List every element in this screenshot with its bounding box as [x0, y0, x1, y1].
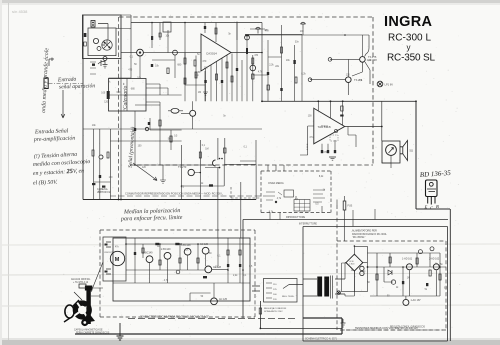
svg-text:1-AC 187: 1-AC 187 [411, 299, 422, 302]
IF block inner lines [109, 79, 147, 112]
resistor comb r3 [216, 74, 218, 80]
resistor R44 [429, 270, 431, 276]
bridge rectifier D1-D4 [346, 254, 363, 271]
psu dashed enclosure [337, 205, 446, 330]
resistor R35 [239, 250, 241, 255]
wire ground bus 2 [260, 301, 342, 328]
tuner box inner [88, 28, 116, 56]
resistor R25 [92, 150, 94, 156]
svg-text:E: E [424, 205, 428, 210]
ground tonearm [117, 323, 124, 340]
node tuner bottom [103, 57, 107, 61]
wire if column a [152, 23, 168, 53]
wire U2 output [345, 101, 382, 141]
capacitor comb c3 [236, 68, 238, 71]
phono dashed enclosure [100, 230, 255, 317]
wire speaker return [416, 208, 450, 210]
transistor Q2 driver [250, 65, 256, 71]
handwriting arrow down [61, 90, 65, 118]
dashed band-switch line vertical [118, 17, 120, 199]
main chassis left wire [82, 15, 84, 200]
wire tuner top [98, 24, 108, 40]
capacitor C26 [102, 186, 105, 188]
psu rail wires [368, 253, 447, 299]
capacitor C22 [99, 175, 101, 178]
wire volume bus [83, 129, 262, 200]
main chassis bottom wire [83, 199, 256, 201]
resistor R17 [267, 85, 269, 90]
feedback network caps [322, 140, 335, 150]
ferrite antenna [44, 78, 48, 89]
svg-text:1M: 1M [407, 278, 410, 280]
faint fold line 1 [2, 244, 500, 245]
junction dots rail [118, 22, 441, 271]
transistor package TO-126 body [426, 180, 438, 197]
svg-text:M: M [115, 257, 120, 263]
transistor Q10 [205, 266, 212, 273]
wire tuner agc [146, 84, 160, 95]
motor terminals [106, 242, 111, 274]
comb under opamp wires [185, 22, 242, 102]
left scan edge [0, 0, 2, 345]
cartridge arm black bar [86, 287, 90, 324]
switch contacts [266, 190, 325, 202]
tuner box outer [83, 15, 122, 59]
switch table 2 [294, 200, 310, 212]
capacitor C9 [293, 60, 295, 64]
svg-text:CA3014: CA3014 [206, 52, 217, 56]
wire amp to psu links [337, 200, 375, 220]
speaker LS1 coil circle [386, 145, 397, 156]
svg-text:“CARACTERISTICAS PARA RC-350 S: “CARACTERISTICAS PARA RC-350 SL” SOLO 33… [140, 314, 209, 318]
transistor Q15 if [139, 51, 141, 53]
node detector [245, 35, 250, 40]
capacitor C23 [148, 122, 150, 125]
resistor R16 [252, 74, 254, 79]
wire top rail [131, 22, 262, 24]
motor caps [105, 244, 108, 246]
capacitor C34 [239, 264, 241, 267]
transistor Q14 [403, 299, 409, 305]
record changer top wire [243, 219, 448, 221]
svg-text:AGUJAS CRISTAL: AGUJAS CRISTAL [71, 278, 91, 281]
capacitor C15 [340, 115, 343, 117]
handwriting tick tuner [98, 60, 105, 66]
package legs [428, 197, 435, 205]
node phono out [176, 270, 180, 274]
dashed power rail line mid [130, 164, 373, 166]
resistor comb r2 [195, 72, 197, 78]
handwriting hook mark [49, 58, 54, 67]
stylus ellipse [65, 305, 74, 318]
zener D5 [388, 270, 392, 275]
ground psu [341, 319, 346, 327]
transistor Q11 [211, 298, 218, 305]
resistor R42 [389, 257, 391, 263]
wire speaker top feed [348, 35, 362, 77]
svg-text:s/n 4538: s/n 4538 [12, 9, 28, 14]
wire U2 pins top [318, 101, 342, 125]
svg-text:RC-350 SL: RC-350 SL [387, 53, 435, 64]
vertical wire x131 lower [109, 53, 132, 78]
antenna symbol top b [301, 22, 306, 28]
wire q16 [168, 101, 193, 129]
transistor Q1 mixer [137, 49, 144, 56]
resistor R41 [376, 274, 378, 280]
resistor R43 [416, 258, 418, 264]
svg-text:REG. TENS.: REG. TENS. [282, 296, 295, 298]
dashed U2 compartment [307, 135, 338, 150]
voltage selector rows [266, 283, 272, 298]
left margin rule line [8, 3, 10, 340]
capacitor C4 [159, 33, 161, 37]
wire bridge loop [342, 263, 368, 292]
wire U2 left input [300, 126, 314, 155]
switch table 2 grid [294, 200, 310, 212]
capacitor C5 [246, 35, 249, 37]
transistor Q6 [146, 256, 153, 263]
resistor R45 [439, 274, 441, 280]
node psu c [391, 280, 395, 284]
wire output pair [310, 59, 370, 95]
node bus2 [260, 328, 262, 330]
wire antenna dash-dot [49, 83, 84, 85]
wire cap drops [205, 138, 225, 168]
transistor Q9 [202, 247, 209, 254]
capacitor C8 [267, 72, 269, 75]
wire tonearm bus [75, 318, 342, 334]
cartridge body black [73, 300, 92, 319]
svg-text:3-BC148: 3-BC148 [181, 244, 191, 247]
small marks column g1 [90, 62, 96, 74]
legend tensiones dashes [340, 329, 443, 331]
wire rail drop [130, 23, 132, 54]
node feedback [334, 129, 337, 132]
faint fold line 3 [2, 305, 500, 306]
node junction A [275, 201, 277, 203]
node mains gnd [337, 291, 341, 295]
tiny value labels texture [92, 30, 448, 298]
wire tuner right [120, 59, 122, 200]
wire switch drops [268, 165, 322, 220]
capacitor C25 [92, 183, 95, 185]
capacitor C3 [151, 36, 153, 40]
resistor R20 [341, 106, 343, 111]
resistor R13 [246, 48, 248, 54]
capacitor C30 [134, 252, 136, 255]
resistor R33 [197, 258, 199, 263]
svg-text:INTERRUTTORE: INTERRUTTORE [299, 224, 317, 226]
svg-text:FERIA CARRETE GIRADISCOS: FERIA CARRETE GIRADISCOS [76, 332, 110, 335]
antenna symbol top a [256, 27, 261, 33]
resistor R2 [92, 64, 95, 66]
wire right column [261, 23, 263, 102]
switch block dashed box [261, 171, 331, 213]
svg-text:1-AD 161: 1-AD 161 [402, 258, 413, 261]
svg-text:C 800: C 800 [349, 264, 355, 266]
resistor R9 [167, 68, 169, 74]
cartridge white wedges [74, 302, 91, 319]
cartridge link triangle [83, 312, 95, 323]
transistor Q12 AD161 [406, 264, 412, 270]
svg-text:TS 273: TS 273 [178, 165, 187, 169]
switch table 1 [284, 190, 294, 197]
svg-text:ONDA MEDIA: ONDA MEDIA [268, 182, 284, 185]
bridge top wire [354, 246, 367, 291]
svg-text:5Ω: 5Ω [410, 149, 413, 153]
resistor R22 [199, 152, 201, 158]
speaker LS1 box [382, 141, 400, 163]
svg-text:1-BC149: 1-BC149 [143, 252, 153, 255]
capacitor C35 [203, 276, 207, 278]
svg-text:señal aparación: señal aparación [59, 83, 96, 90]
svg-text:REGLETA CONEX. GIRADISCOS: REGLETA CONEX. GIRADISCOS [390, 326, 425, 329]
svg-text:CAPSULA MAGNETICA DE: CAPSULA MAGNETICA DE [74, 329, 103, 332]
switch contact S1 [145, 127, 148, 130]
transistor Q16 [190, 110, 196, 116]
coil L1 [91, 21, 95, 28]
node psu b [430, 247, 434, 251]
wire tuner to rail [116, 15, 131, 29]
dashed link to legend [231, 187, 261, 198]
cartridge inner white [78, 306, 87, 315]
package hole [429, 182, 433, 186]
capacitor C43 [426, 283, 428, 286]
resistor R40 dropper [343, 201, 346, 210]
voltage selector box [264, 279, 298, 303]
svg-text:1M: 1M [198, 92, 201, 94]
capacitor C17 [327, 150, 329, 153]
top scan edge band [0, 0, 500, 3]
svg-text:SCHEMA ELETTRICO N. 3571: SCHEMA ELETTRICO N. 3571 [305, 338, 338, 341]
svg-text:INGRA: INGRA [384, 14, 433, 30]
svg-text:2-BC149: 2-BC149 [161, 248, 171, 251]
mid mesh wires [135, 95, 214, 165]
transistor Q7 [164, 252, 171, 259]
transistor Q13 AD162 [433, 264, 439, 270]
resistor R7 [184, 58, 186, 64]
psu outer box [303, 227, 448, 342]
transistor Q5 preamp [188, 169, 194, 175]
transistor Q4 output [346, 77, 352, 83]
resistor R14 [281, 47, 283, 53]
record changer left wire [242, 220, 244, 319]
capacitor C6 [151, 64, 153, 67]
ground U2 [329, 157, 336, 160]
capacitor C24 [134, 128, 136, 131]
svg-text:Entrada: Entrada [57, 77, 77, 84]
legend caracteristicas dashes [128, 318, 298, 320]
svg-text:2-AD 162: 2-AD 162 [429, 258, 440, 261]
svg-text:CONMUTADOR REPRESENTADO EN POS: CONMUTADOR REPRESENTADO EN POSICION ONDA… [125, 192, 223, 196]
capacitor C16 [321, 150, 323, 153]
node bias2 [308, 78, 312, 82]
svg-text:REGLETA CONEXION: REGLETA CONEXION [264, 307, 287, 310]
wire am rail [250, 29, 303, 36]
handwriting arrow to circuit [133, 163, 157, 181]
ground comb [203, 92, 208, 95]
svg-text:CIRCUITO: CIRCUITO [104, 252, 115, 254]
capacitor comb c1 [204, 80, 206, 83]
capacitor C40 [360, 266, 364, 270]
svg-text:RIPRODUTTORE: RIPRODUTTORE [286, 216, 305, 219]
trimmer circle 2 [97, 47, 101, 51]
wire mixer input [121, 52, 137, 54]
svg-text:AC 125: AC 125 [219, 298, 228, 301]
svg-text:1M: 1M [324, 126, 327, 128]
wire top mid drops [205, 23, 237, 43]
resistor comb r5 [231, 76, 233, 82]
svg-text:SPINA RETE 220V: SPINA RETE 220V [264, 310, 283, 313]
resistor R21b [224, 148, 226, 153]
capacitor C10 [280, 88, 282, 91]
svg-text:AC 126: AC 126 [200, 243, 209, 246]
transistor Q8 [184, 248, 191, 255]
node pot P1 [173, 50, 178, 55]
capacitor C18 [334, 150, 336, 153]
resistor R34 [227, 250, 229, 255]
svg-text:1M: 1M [205, 148, 208, 150]
phono mesh wires [113, 238, 250, 301]
IF block box [109, 79, 147, 112]
resistor R36 [259, 308, 261, 314]
svg-text:“RC-350SL”: “RC-350SL” [352, 236, 366, 239]
pot P3 oval [171, 108, 179, 113]
resistor comb r1 [184, 78, 186, 84]
stylus lever [64, 300, 79, 322]
resistor R26 [107, 152, 109, 158]
cartridge box outline [74, 284, 86, 300]
transistor Q3 output [360, 57, 366, 63]
cartridge arm head [85, 286, 92, 291]
wire opamp input [144, 52, 202, 54]
resistor R28 [170, 136, 172, 142]
svg-text:y: y [407, 43, 411, 52]
resistor R27 [159, 120, 161, 126]
resistor comb r4 [226, 62, 228, 68]
package notch lines [427, 189, 436, 192]
svg-text:el (B) 50V.: el (B) 50V. [33, 179, 59, 187]
op-amp U2 TAA611B [314, 108, 345, 144]
resistor R30 [142, 248, 144, 253]
wire feedback [185, 53, 205, 102]
transformer T1 winding right [324, 277, 329, 297]
wire opamp out [231, 52, 262, 54]
wire Q5 mesh [182, 140, 257, 238]
dashed enclosure radio section top [119, 16, 373, 18]
resistor R8 [194, 60, 196, 66]
variable capacitor C1 [102, 40, 112, 50]
IF transformer T2 [163, 22, 171, 32]
wire sec to bridge [345, 263, 354, 296]
capacitor C32 [175, 243, 179, 245]
capacitor C31 [155, 243, 159, 245]
svg-text:B: B [436, 204, 439, 209]
ground tuner [103, 61, 108, 68]
wire av rail [245, 35, 369, 57]
legend conmutador dashes [110, 195, 266, 197]
svg-text:+ TA-STR A 12: + TA-STR A 12 [73, 281, 89, 284]
svg-text:RC-300 L: RC-300 L [388, 33, 431, 44]
volume control strip wires [245, 25, 302, 101]
ground mid [160, 165, 166, 183]
svg-text:FUS: FUS [348, 205, 353, 208]
cartridge leads [91, 262, 103, 296]
capacitor C2 [204, 26, 206, 29]
node takeoff [99, 155, 103, 159]
wire speaker gnd [382, 155, 391, 168]
chassis right vertical wire [449, 209, 451, 341]
dashed enclosure radio section right [372, 17, 374, 165]
resistor R5 [215, 28, 217, 34]
op-amp U1 CA3014 [201, 34, 231, 71]
node bias [328, 58, 332, 62]
capacitor comb c2 [221, 80, 223, 83]
amp block right wire [415, 101, 417, 209]
trimmer circle [93, 38, 98, 43]
transformer T1 primary lines [303, 276, 345, 299]
svg-text:LP1 6V: LP1 6V [385, 83, 394, 87]
transformer T1 winding left [317, 277, 322, 297]
wire if links [135, 55, 175, 105]
phono inner box [113, 238, 250, 301]
capacitor C41 [360, 271, 364, 275]
resistor R31 [159, 260, 161, 265]
faint fold line 2 [2, 273, 500, 275]
mains plug marks [252, 285, 303, 292]
cartridge pivot hole [83, 321, 86, 324]
node psu a [418, 250, 422, 254]
capacitor C42 [402, 281, 404, 284]
scan noise speckle [61, 12, 461, 339]
capacitor C20 [209, 184, 213, 186]
resistor R32 [179, 258, 181, 263]
bottom scan edge band [0, 340, 500, 345]
lamp dial [377, 81, 383, 87]
motor M1 [110, 251, 124, 265]
amp block top wire [262, 100, 416, 102]
wire dropper [344, 196, 353, 241]
svg-text:“Calentario”: “Calentario” [122, 83, 129, 112]
cartridge pivot circle [81, 319, 88, 326]
resistor R12 [252, 58, 254, 64]
motor box [103, 237, 126, 281]
svg-text:Entrada Señal: Entrada Señal [34, 128, 69, 135]
speaker LS1 cone [400, 141, 408, 161]
wire U2 boot [348, 127, 356, 148]
resistor R15 [295, 77, 297, 83]
tuner left marks [84, 33, 87, 37]
capacitor C19 electrolytic [213, 160, 216, 166]
speaker LS1 arrow [389, 148, 394, 154]
resistor R3 [107, 91, 110, 99]
capacitor C33 [227, 264, 229, 267]
